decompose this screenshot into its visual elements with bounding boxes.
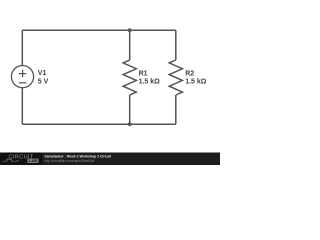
wire R2 branch top lead (175, 30, 177, 60)
wire R2 branch bottom lead (175, 95, 177, 124)
voltage source V1 circle (11, 66, 33, 88)
footer caption line 1 (44, 154, 111, 158)
footer logo LAB box (28, 159, 39, 163)
wire left branch upper (V1 top lead) (21, 30, 23, 65)
svg-text:1.5 kΩ: 1.5 kΩ (139, 79, 161, 86)
resistor R1 zigzag (123, 60, 136, 95)
V1 minus sign (19, 82, 27, 84)
svg-text:LAB: LAB (29, 158, 37, 163)
V1 plus sign (19, 70, 27, 77)
svg-text:1.5 kΩ: 1.5 kΩ (185, 79, 207, 86)
wire left branch lower (V1 bottom lead) (21, 88, 23, 124)
resistor R2 zigzag (169, 60, 182, 95)
wire top rail (22, 29, 176, 31)
wire bottom rail (22, 123, 176, 125)
footer bar (0, 153, 220, 166)
footer logo waveform (3, 159, 20, 161)
svg-text:R1: R1 (139, 71, 148, 78)
svg-text:http://circuitlab.com/csph43bn: http://circuitlab.com/csph43bn06ikr (44, 159, 95, 163)
svg-text:R2: R2 (185, 71, 194, 78)
wire R1 branch bottom lead (129, 95, 131, 124)
node junction dot top (R1 tap on top rail) (128, 28, 132, 32)
node junction dot bottom (R1 tap on bottom rail) (128, 122, 132, 126)
svg-text:V1: V1 (38, 70, 47, 77)
wire R1 branch top lead (129, 30, 131, 60)
svg-text:5 V: 5 V (38, 78, 49, 85)
svg-text:Samstacker : Week 2 Workshop 2: Samstacker : Week 2 Workshop 2 Circuit (44, 154, 111, 158)
footer caption line 2 url (44, 159, 95, 163)
